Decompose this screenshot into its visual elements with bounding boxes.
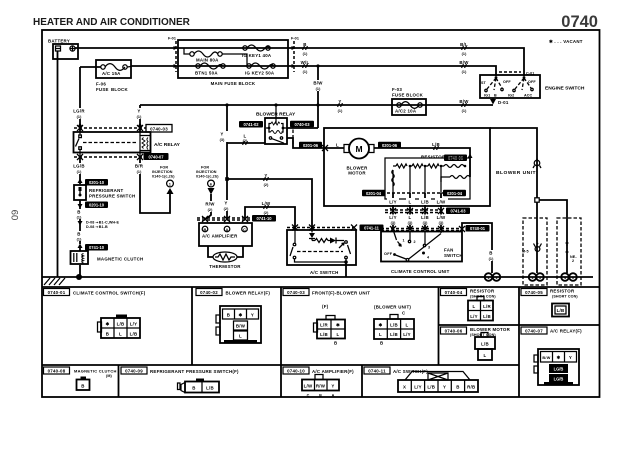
cell header 0740-08 bbox=[44, 367, 117, 378]
cell header 0740-04 bbox=[441, 289, 497, 299]
svg-text:C: C bbox=[243, 227, 246, 232]
svg-text:W/L: W/L bbox=[301, 60, 310, 65]
svg-text:L/W: L/W bbox=[437, 200, 446, 205]
svg-text:FAN: FAN bbox=[444, 248, 454, 253]
wire climate unit to ground circles bbox=[462, 223, 492, 273]
wire L/W from amplifier C to A/C switch bbox=[245, 207, 295, 230]
svg-text:L/Y: L/Y bbox=[414, 385, 422, 390]
switch unit A/C SWITCH bbox=[287, 225, 357, 276]
connector 0201-10 label with down arrow bbox=[78, 200, 109, 209]
svg-text:L/B: L/B bbox=[320, 332, 328, 337]
svg-text:MAGNETIC CLUTCH: MAGNETIC CLUTCH bbox=[97, 257, 143, 262]
svg-text:CLIMATE CONTROL SWITCH(F): CLIMATE CONTROL SWITCH(F) bbox=[73, 291, 146, 296]
panel grid lines bbox=[42, 287, 600, 397]
svg-text:0740-06: 0740-06 bbox=[445, 329, 463, 334]
svg-text:0740-07: 0740-07 bbox=[525, 329, 543, 334]
node ground circles pair 2 bbox=[529, 273, 544, 281]
svg-text:L: L bbox=[244, 134, 247, 139]
svg-text:L/W: L/W bbox=[304, 384, 313, 389]
svg-text:LG/B: LG/B bbox=[554, 377, 564, 382]
svg-text:L: L bbox=[484, 353, 487, 358]
svg-text:(BLOWER UNIT): (BLOWER UNIT) bbox=[374, 305, 411, 310]
main fuse block box bbox=[178, 40, 288, 78]
fuse MAIN 80A bbox=[184, 48, 247, 66]
svg-text:0740-11: 0740-11 bbox=[368, 369, 386, 374]
svg-text:L/B: L/B bbox=[390, 323, 398, 328]
svg-text:L: L bbox=[336, 143, 339, 148]
svg-text:F-01: F-01 bbox=[168, 37, 176, 41]
motor M1 BLOWER MOTOR bbox=[344, 139, 374, 176]
svg-text:2: 2 bbox=[572, 259, 574, 263]
svg-text:B/W: B/W bbox=[542, 356, 550, 360]
node square junction bbox=[535, 198, 539, 202]
svg-text:✱: ✱ bbox=[379, 323, 383, 328]
svg-text:(1): (1) bbox=[77, 115, 82, 119]
svg-text:RESISTOR: RESISTOR bbox=[470, 289, 495, 294]
resistor R1 in A/C switch bbox=[312, 239, 330, 243]
svg-text:(1): (1) bbox=[77, 238, 82, 242]
svg-text:F-01: F-01 bbox=[291, 37, 299, 41]
svg-text:0740-03: 0740-03 bbox=[287, 290, 305, 295]
svg-text:(3): (3) bbox=[423, 221, 428, 225]
svg-text:L/B: L/B bbox=[390, 332, 398, 337]
svg-text:L/W: L/W bbox=[262, 201, 271, 206]
svg-text:A: A bbox=[332, 394, 335, 398]
connector 0741-03 double-dash bus bbox=[385, 208, 470, 215]
svg-text:BLOWER UNIT: BLOWER UNIT bbox=[496, 170, 536, 176]
svg-text:MOTOR: MOTOR bbox=[348, 171, 366, 176]
svg-text:0740: 0740 bbox=[561, 13, 598, 31]
svg-text:0201-10: 0201-10 bbox=[89, 180, 105, 185]
dashed option box 1 bbox=[523, 218, 547, 285]
connector label 0740-06 with arrow bbox=[444, 154, 473, 162]
svg-text:(2): (2) bbox=[264, 211, 269, 215]
svg-text:IG KEY1 40A: IG KEY1 40A bbox=[242, 53, 272, 58]
svg-text:OFF: OFF bbox=[384, 252, 393, 256]
wire A battery positive feed (B) bbox=[75, 48, 524, 76]
svg-text:A: A bbox=[226, 227, 229, 232]
connector drawing A/C switch bbox=[398, 372, 478, 393]
svg-text:B: B bbox=[489, 251, 492, 256]
connector 0740-07 dashed bus above A/C relay bbox=[74, 125, 172, 133]
svg-text:✱: ✱ bbox=[239, 313, 243, 318]
connector drawing resistor short con bbox=[552, 304, 569, 317]
svg-text:(2): (2) bbox=[264, 183, 269, 187]
svg-text:FUSE BLOCK: FUSE BLOCK bbox=[392, 93, 424, 98]
switch contact right in A/C switch bbox=[345, 241, 351, 259]
resistor block RESISTOR bbox=[385, 155, 470, 200]
svg-text:L: L bbox=[409, 215, 412, 220]
svg-text:B: B bbox=[81, 384, 84, 389]
svg-text:0741-10: 0741-10 bbox=[256, 216, 272, 221]
switch contact left in A/C switch bbox=[290, 230, 343, 259]
svg-text:0201-10: 0201-10 bbox=[89, 203, 105, 208]
cell header 0740-02 bbox=[196, 289, 270, 296]
grommet symbol on wire bbox=[533, 159, 541, 169]
wire main right column down bbox=[536, 202, 538, 273]
svg-text:0740-01: 0740-01 bbox=[48, 290, 66, 295]
connector drawing resistor bbox=[468, 297, 493, 321]
wire label W/L bbox=[301, 60, 310, 74]
svg-text:CLIMATE CONTROL UNIT: CLIMATE CONTROL UNIT bbox=[391, 269, 450, 274]
svg-text:IG1: IG1 bbox=[484, 94, 490, 98]
connector drawing blower motor short con bbox=[475, 333, 495, 361]
cell header 0740-06 bbox=[441, 327, 511, 337]
svg-text:0740-04: 0740-04 bbox=[445, 290, 463, 295]
svg-text:(1): (1) bbox=[303, 70, 308, 74]
wire blower unit top feed to right bbox=[490, 128, 537, 198]
connector label 0740-03 right of blower relay bbox=[290, 121, 314, 128]
svg-text:ST: ST bbox=[481, 81, 487, 85]
svg-text:0140-1(c,2b): 0140-1(c,2b) bbox=[152, 175, 175, 179]
wire B with joint labels bbox=[74, 208, 120, 244]
wire labels with (3) into climate control unit bbox=[387, 213, 448, 230]
wire blower relay output to motor bbox=[287, 138, 344, 148]
svg-text:0741-02: 0741-02 bbox=[243, 122, 259, 127]
cell header 0740-10 bbox=[283, 367, 354, 374]
svg-text:PRESSURE SWITCH: PRESSURE SWITCH bbox=[89, 194, 135, 199]
svg-text:0740-02: 0740-02 bbox=[200, 290, 218, 295]
svg-text:(F): (F) bbox=[322, 304, 329, 309]
svg-text:0740-07: 0740-07 bbox=[148, 154, 164, 159]
connector drawing blower unit connector bbox=[374, 305, 414, 346]
connector drawing climate control switch bbox=[98, 315, 141, 339]
connector 0741-10 label with up arrow bbox=[78, 244, 109, 251]
svg-text:D-01: D-01 bbox=[498, 100, 509, 105]
wire 3 ignition feed (y105) bbox=[140, 104, 493, 106]
fuse BTN1 50A bbox=[195, 63, 225, 76]
svg-text:B: B bbox=[204, 227, 207, 232]
svg-text:LG/R: LG/R bbox=[73, 109, 85, 114]
svg-text:MAIN 80A: MAIN 80A bbox=[196, 58, 219, 63]
node junction B/W tap bbox=[316, 64, 319, 67]
svg-text:0201-06: 0201-06 bbox=[303, 143, 319, 148]
svg-text:(3): (3) bbox=[220, 138, 225, 142]
svg-text:INJECTION: INJECTION bbox=[152, 170, 173, 174]
node ground circles pair 3 bbox=[561, 273, 577, 281]
diode D1 in A/C switch bbox=[309, 230, 315, 241]
svg-text:HEATER AND AIR CONDITIONER: HEATER AND AIR CONDITIONER bbox=[33, 17, 191, 28]
wire label B/W at 463 bbox=[459, 99, 469, 113]
svg-text:Y: Y bbox=[443, 385, 446, 390]
svg-text:D-08 ➞B1-B: D-08 ➞B1-B bbox=[86, 225, 108, 229]
wire label B bbox=[303, 42, 309, 56]
svg-text:B: B bbox=[494, 94, 497, 98]
svg-text:SWITCH: SWITCH bbox=[444, 253, 463, 258]
svg-text:✱: ✱ bbox=[336, 323, 340, 328]
wire label Y at 340 bbox=[338, 99, 344, 113]
svg-text:B: B bbox=[303, 42, 306, 47]
svg-text:RESISTOR: RESISTOR bbox=[421, 155, 446, 160]
svg-text:0740-08: 0740-08 bbox=[48, 369, 66, 374]
svg-text:L/B: L/B bbox=[481, 342, 489, 347]
ground bus bbox=[42, 276, 593, 278]
wire A/C switch bottom to ground bus bbox=[295, 259, 348, 278]
wire Y branch to A/C switch bbox=[227, 179, 312, 230]
svg-text:Y: Y bbox=[251, 313, 254, 318]
svg-text:(1): (1) bbox=[338, 109, 343, 113]
svg-text:Y: Y bbox=[331, 384, 334, 389]
svg-text:Y: Y bbox=[220, 132, 223, 137]
battery BATTERY bbox=[48, 39, 78, 60]
svg-text:Y: Y bbox=[137, 109, 140, 114]
svg-text:A/C 15A: A/C 15A bbox=[102, 71, 121, 76]
svg-text:A/C2 10A: A/C2 10A bbox=[395, 109, 417, 114]
wire label L/B bbox=[432, 142, 440, 150]
wire branch to right column bbox=[539, 200, 567, 273]
wire label B/W bbox=[459, 60, 469, 74]
pressure switch REFRIGERANT PRESSURE SWITCH bbox=[74, 185, 135, 200]
svg-text:BLOWER MOTOR: BLOWER MOTOR bbox=[470, 327, 511, 332]
svg-text:2: 2 bbox=[414, 240, 416, 244]
svg-text:B/L: B/L bbox=[460, 42, 468, 47]
svg-text:R/W: R/W bbox=[205, 202, 215, 207]
wire B/W drop to blower relay coil bbox=[317, 66, 319, 128]
svg-text:B: B bbox=[106, 332, 109, 337]
connector drawing A/C relay bbox=[534, 349, 579, 385]
wire L into blower relay contact bbox=[227, 142, 265, 144]
svg-text:REFRIGERANT PRESSURE SWITCH(F): REFRIGERANT PRESSURE SWITCH(F) bbox=[150, 369, 239, 374]
wire color labels row L/Y L L/B L/W bbox=[387, 193, 448, 211]
svg-text:L/B: L/B bbox=[427, 385, 435, 390]
connector drawing amplifier bbox=[302, 375, 339, 398]
svg-text:L/R: L/R bbox=[320, 323, 328, 328]
svg-text:FUSE: FUSE bbox=[96, 87, 109, 92]
svg-text:MAGNETIC CLUTCH: MAGNETIC CLUTCH bbox=[74, 369, 117, 374]
svg-text:A/C AMPLIFIER(F): A/C AMPLIFIER(F) bbox=[312, 369, 354, 374]
switch unit CLIMATE CONTROL UNIT bbox=[381, 231, 463, 274]
op-amp unit A/C AMPLIFIER bbox=[199, 223, 252, 246]
svg-text:L/B: L/B bbox=[421, 215, 429, 220]
svg-text:L: L bbox=[239, 334, 242, 339]
svg-text:B/W: B/W bbox=[236, 324, 246, 329]
connector 0201-10 label with up arrow bbox=[78, 179, 109, 186]
svg-text:(2): (2) bbox=[224, 207, 229, 211]
svg-text:L/Y: L/Y bbox=[389, 215, 397, 220]
svg-text:M-5: M-5 bbox=[522, 250, 529, 254]
svg-text:REFRIGERANT: REFRIGERANT bbox=[89, 188, 124, 193]
svg-text:D-08 ➞B1-C,WH-E: D-08 ➞B1-C,WH-E bbox=[86, 221, 120, 225]
svg-text:L/Y: L/Y bbox=[130, 322, 138, 327]
svg-text:B: B bbox=[334, 341, 337, 346]
outer frame bbox=[42, 30, 600, 397]
svg-text:0740-10: 0740-10 bbox=[287, 369, 305, 374]
connector 0201-04 bus at resistor outputs bbox=[362, 190, 466, 197]
ground chassis symbol bbox=[44, 278, 65, 285]
svg-text:L/W: L/W bbox=[437, 215, 446, 220]
wire battery negative to ground bbox=[57, 51, 59, 277]
thermistor THERMISTOR bbox=[208, 246, 243, 269]
connector label 0741-11 bbox=[360, 225, 384, 232]
connector drawing blower relay bbox=[216, 306, 261, 343]
svg-text:0740-09: 0740-09 bbox=[125, 369, 143, 374]
svg-text:(1): (1) bbox=[489, 257, 494, 261]
breaker symbol in option box 2 bbox=[566, 243, 578, 263]
svg-text:(3): (3) bbox=[408, 221, 413, 225]
svg-text:A/C RELAY: A/C RELAY bbox=[154, 142, 181, 148]
connector 0741-10 bus at amplifier bbox=[197, 215, 276, 222]
wire label B/L bbox=[460, 42, 468, 56]
svg-text:0740-05: 0740-05 bbox=[525, 290, 543, 295]
svg-text:FOR: FOR bbox=[160, 166, 168, 170]
svg-text:F-03: F-03 bbox=[392, 87, 402, 92]
svg-text:L: L bbox=[409, 200, 412, 205]
node junction at 227,105 bbox=[225, 103, 228, 106]
connector drawing pressure switch bbox=[178, 379, 220, 393]
svg-text:0201-04: 0201-04 bbox=[366, 191, 382, 196]
cell header 0740-05 bbox=[521, 289, 578, 299]
svg-text:L/B: L/B bbox=[117, 322, 125, 327]
node to injection 1 bbox=[152, 166, 175, 195]
node ground circles pair 1 bbox=[485, 273, 501, 281]
svg-text:09: 09 bbox=[10, 210, 21, 221]
svg-text:0741-11: 0741-11 bbox=[364, 226, 380, 231]
svg-text:B/W: B/W bbox=[459, 99, 469, 104]
svg-text:RESISTOR: RESISTOR bbox=[550, 289, 575, 294]
cell header 0740-03 bbox=[283, 289, 370, 296]
connector label 0201-06 right of motor bbox=[378, 142, 401, 149]
connector drawing front connector bbox=[314, 304, 346, 346]
svg-text:0140-1(c,2b): 0140-1(c,2b) bbox=[196, 175, 219, 179]
svg-text:B: B bbox=[380, 341, 383, 346]
svg-text:OFF: OFF bbox=[528, 80, 536, 84]
node from injection 6 bbox=[196, 166, 219, 195]
fuse IG KEY2 50A bbox=[245, 63, 275, 76]
cell header 0740-07 bbox=[521, 327, 582, 334]
fuse A/C2 10A in F-03 fuse block bbox=[392, 87, 426, 115]
svg-text:C: C bbox=[307, 394, 310, 398]
svg-text:A/C AMPLIFIER: A/C AMPLIFIER bbox=[202, 234, 238, 239]
dashed option box 2 bbox=[557, 218, 581, 285]
svg-text:ACC: ACC bbox=[524, 94, 533, 98]
svg-text:FRONT(F)-BLOWER UNIT: FRONT(F)-BLOWER UNIT bbox=[312, 291, 370, 296]
svg-text:B: B bbox=[227, 313, 230, 318]
wire R/W to amplifier B bbox=[206, 194, 211, 219]
svg-text:0201-04: 0201-04 bbox=[447, 191, 463, 196]
svg-text:L/Y: L/Y bbox=[403, 332, 411, 337]
wire motor to resistor bbox=[374, 148, 470, 177]
magnetic clutch MAGNETIC CLUTCH bbox=[71, 248, 144, 277]
cell header 0740-01 bbox=[44, 289, 146, 296]
wire Y drop to A/C relay coil bbox=[139, 105, 141, 132]
svg-text:(1): (1) bbox=[137, 115, 142, 119]
svg-text:LG/B: LG/B bbox=[73, 164, 85, 169]
wire B (W/L) second feed bbox=[131, 66, 496, 76]
svg-text:L/Y: L/Y bbox=[470, 314, 478, 319]
wire B/R from relay coil return bbox=[140, 157, 170, 213]
svg-text:FOR: FOR bbox=[201, 166, 209, 170]
svg-text:(M): (M) bbox=[106, 374, 112, 378]
svg-text:B: B bbox=[319, 394, 322, 398]
svg-text:A/C RELAY(F): A/C RELAY(F) bbox=[550, 329, 582, 334]
svg-text:✱ . . . VACANT: ✱ . . . VACANT bbox=[549, 39, 583, 44]
svg-text:(2): (2) bbox=[208, 208, 213, 212]
cell header 0740-11 bbox=[364, 367, 428, 374]
connector 0740-01 bus at climate control unit bbox=[381, 225, 490, 232]
engine switch U-ES bbox=[480, 72, 585, 99]
svg-text:L: L bbox=[119, 332, 122, 337]
svg-text:IG KEY2 50A: IG KEY2 50A bbox=[245, 71, 275, 76]
svg-text:ENGINE SWITCH: ENGINE SWITCH bbox=[545, 86, 585, 92]
svg-text:0741-10: 0741-10 bbox=[89, 245, 105, 250]
relay A/C RELAY bbox=[74, 123, 181, 158]
svg-text:OFF: OFF bbox=[503, 80, 511, 84]
node junction on ground bus bbox=[76, 274, 82, 280]
svg-text:M: M bbox=[355, 144, 362, 154]
svg-text:B/W: B/W bbox=[459, 60, 469, 65]
svg-text:(1): (1) bbox=[303, 52, 308, 56]
connector 0740-07 dashed bus below A/C relay bbox=[74, 153, 169, 160]
wire LG/R down to A/C relay bbox=[79, 67, 81, 132]
thermo switch in option box bbox=[522, 243, 542, 254]
svg-text:BLOWER RELAY(F): BLOWER RELAY(F) bbox=[226, 291, 271, 296]
svg-text:B: B bbox=[456, 385, 459, 390]
svg-text:(1): (1) bbox=[77, 170, 82, 174]
diode D2 in A/C switch bbox=[330, 238, 344, 249]
cell header 0740-09 bbox=[121, 367, 239, 374]
svg-text:3: 3 bbox=[428, 246, 430, 250]
node junction at 318,105 bbox=[316, 103, 319, 106]
svg-text:0740-01: 0740-01 bbox=[470, 226, 486, 231]
svg-text:IG2: IG2 bbox=[508, 94, 514, 98]
svg-text:L: L bbox=[337, 332, 340, 337]
svg-text:Y: Y bbox=[569, 355, 572, 360]
svg-text:F-06: F-06 bbox=[96, 82, 106, 87]
svg-text:LG/B: LG/B bbox=[554, 367, 564, 372]
connector F-01 left dashed bbox=[168, 37, 178, 73]
svg-text:B: B bbox=[192, 386, 195, 391]
connector F-01 right dashed bbox=[291, 37, 299, 73]
svg-text:L/B: L/B bbox=[557, 308, 565, 313]
wire Y main vertical x227 bbox=[226, 105, 228, 219]
svg-text:BTN1 50A: BTN1 50A bbox=[195, 71, 218, 76]
blower unit box bbox=[324, 128, 490, 206]
svg-text:L: L bbox=[406, 323, 409, 328]
svg-text:(1): (1) bbox=[462, 109, 467, 113]
svg-text:C-01: C-01 bbox=[526, 72, 534, 76]
svg-text:1: 1 bbox=[403, 239, 405, 243]
wire LG/B to refrigerant pressure switch bbox=[79, 157, 81, 184]
connector drawing magnetic clutch bbox=[77, 377, 90, 391]
resistor output wires L/Y L L/B L/W bbox=[393, 166, 441, 193]
svg-text:B/R: B/R bbox=[135, 164, 144, 169]
svg-text:B: B bbox=[77, 210, 80, 215]
svg-text:(3): (3) bbox=[439, 221, 444, 225]
svg-text:0741-03: 0741-03 bbox=[450, 209, 466, 214]
svg-text:R/B: R/B bbox=[467, 385, 475, 390]
node junction at 227,179 bbox=[225, 177, 229, 181]
svg-text:INJECTION: INJECTION bbox=[196, 170, 217, 174]
svg-text:L/B: L/B bbox=[483, 314, 491, 319]
svg-text:(1): (1) bbox=[462, 52, 467, 56]
svg-text:L: L bbox=[473, 304, 476, 309]
svg-text:MAIN FUSE BLOCK: MAIN FUSE BLOCK bbox=[211, 81, 256, 86]
svg-text:BLOCK: BLOCK bbox=[111, 87, 128, 92]
svg-text:L: L bbox=[379, 332, 382, 337]
svg-text:Y: Y bbox=[224, 201, 227, 206]
svg-text:L/Y: L/Y bbox=[389, 200, 397, 205]
svg-text:L/R: L/R bbox=[483, 304, 491, 309]
svg-text:0740-03: 0740-03 bbox=[150, 126, 168, 131]
svg-text:(1): (1) bbox=[77, 216, 82, 220]
relay BLOWER RELAY bbox=[256, 103, 296, 145]
svg-text:(1): (1) bbox=[462, 70, 467, 74]
svg-text:A/C SWITCH: A/C SWITCH bbox=[310, 270, 339, 275]
fuse A/C 15A in F-06 fuse block bbox=[80, 60, 131, 92]
connector label 0741-02 left of blower relay bbox=[239, 121, 263, 128]
svg-text:✱: ✱ bbox=[106, 322, 110, 327]
svg-text:B/W: B/W bbox=[313, 81, 323, 86]
